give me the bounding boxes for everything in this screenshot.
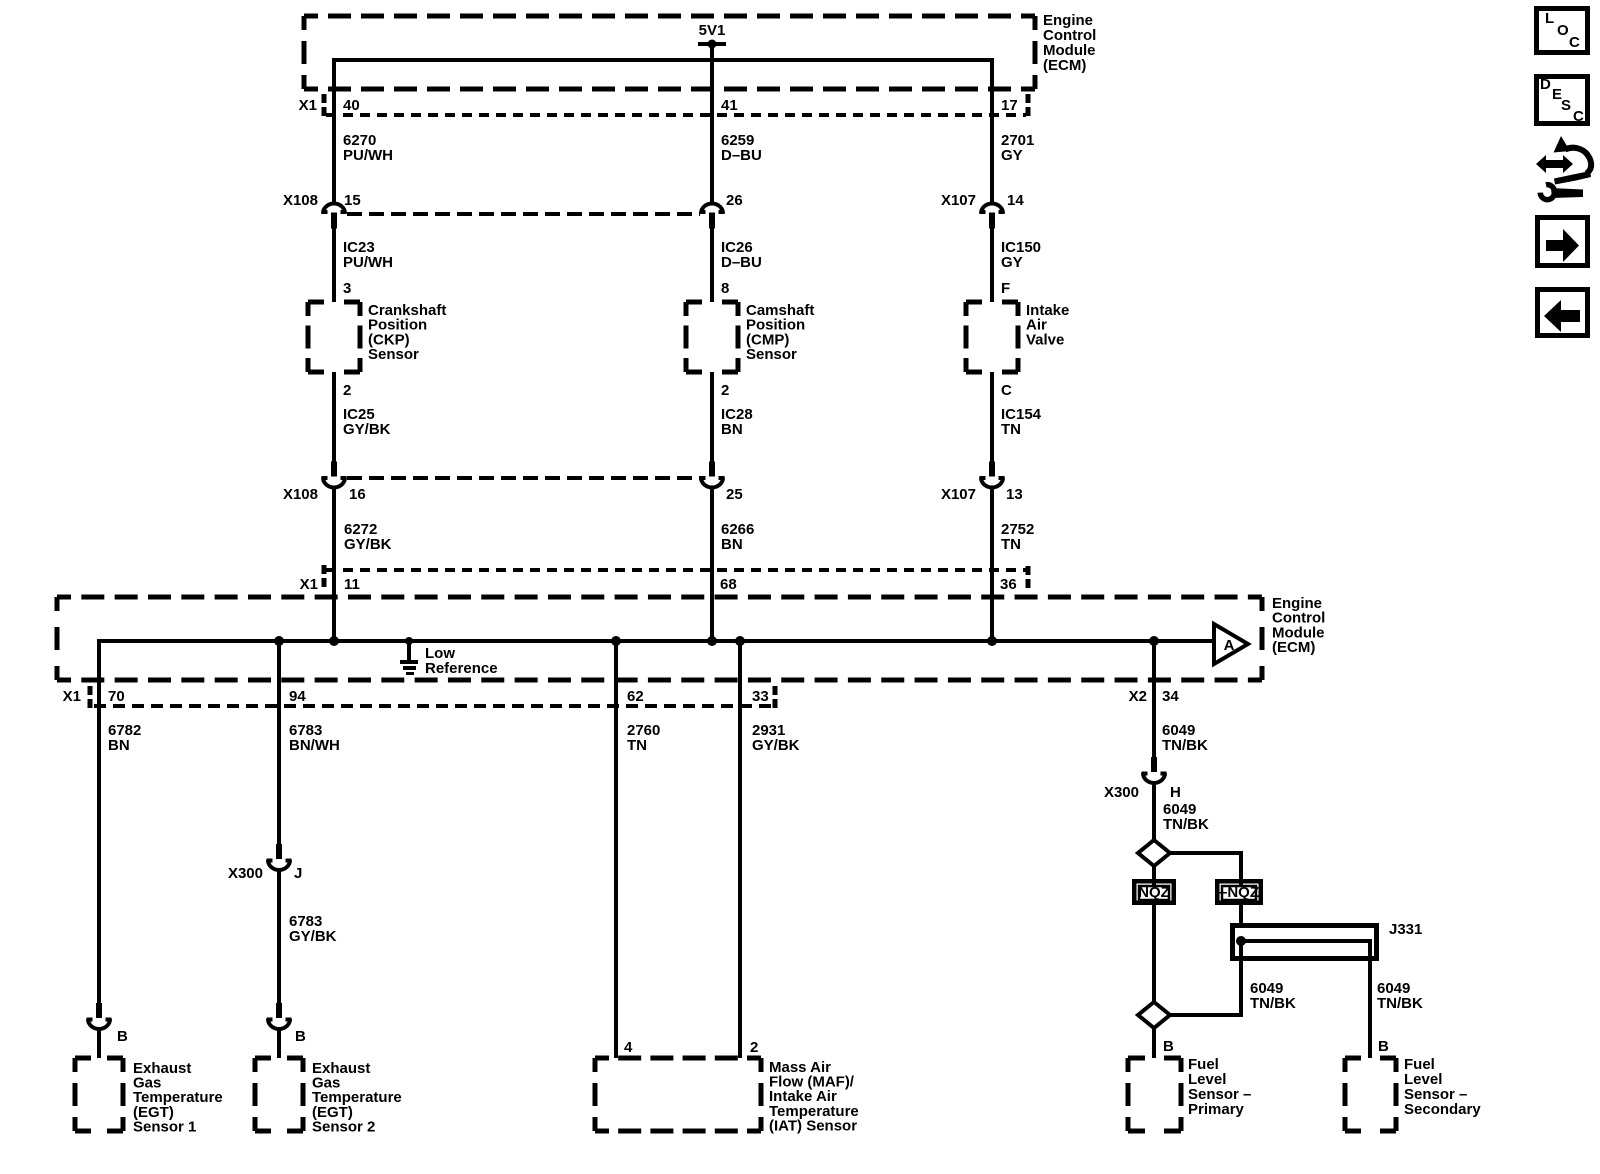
svg-text:5V1: 5V1 [699,22,726,39]
svg-text:TN: TN [1001,536,1021,553]
svg-text:B: B [1163,1038,1174,1055]
svg-text:–NQZ: –NQZ [1219,884,1259,901]
svg-text:B: B [117,1028,128,1045]
svg-text:(IAT) Sensor: (IAT) Sensor [769,1117,857,1134]
svg-text:X107: X107 [941,486,976,503]
svg-text:BN: BN [721,536,743,553]
svg-text:Sensor 1: Sensor 1 [133,1118,196,1135]
svg-text:D: D [1540,76,1551,93]
svg-text:X1: X1 [300,576,318,593]
svg-text:14: 14 [1007,192,1024,209]
svg-text:36: 36 [1000,576,1017,593]
svg-text:X107: X107 [941,192,976,209]
svg-text:11: 11 [344,576,360,593]
svg-text:PU/WH: PU/WH [343,147,393,164]
svg-text:S: S [1561,97,1571,114]
svg-text:16: 16 [349,486,366,503]
svg-text:40: 40 [343,97,360,114]
svg-text:TN/BK: TN/BK [1250,995,1296,1012]
svg-text:TN/BK: TN/BK [1162,737,1208,754]
svg-text:A: A [1224,637,1235,654]
svg-text:X300: X300 [228,865,263,882]
svg-text:F: F [1001,280,1010,297]
svg-text:33: 33 [752,688,769,705]
svg-text:Valve: Valve [1026,331,1064,348]
svg-text:13: 13 [1006,486,1023,503]
svg-text:X300: X300 [1104,784,1139,801]
svg-text:GY/BK: GY/BK [344,536,392,553]
svg-text:GY: GY [1001,147,1023,164]
svg-text:2: 2 [343,382,351,399]
svg-text:GY: GY [1001,254,1023,271]
svg-text:B: B [295,1028,306,1045]
svg-text:X108: X108 [283,486,318,503]
svg-text:PU/WH: PU/WH [343,254,393,271]
svg-text:Primary: Primary [1188,1101,1245,1118]
svg-text:2: 2 [750,1039,758,1056]
svg-text:X2: X2 [1129,688,1147,705]
svg-text:J331: J331 [1389,921,1422,938]
svg-text:(ECM): (ECM) [1043,57,1086,74]
svg-text:GY/BK: GY/BK [752,737,800,754]
svg-text:L: L [1545,10,1554,27]
svg-text:Sensor 2: Sensor 2 [312,1118,375,1135]
svg-text:15: 15 [344,192,361,209]
svg-text:D–BU: D–BU [721,254,762,271]
svg-text:BN: BN [108,737,130,754]
svg-text:C: C [1573,108,1584,125]
svg-text:TN: TN [627,737,647,754]
svg-text:NQZ: NQZ [1138,884,1170,901]
svg-text:Secondary: Secondary [1404,1101,1481,1118]
svg-text:Sensor: Sensor [746,346,797,363]
svg-text:62: 62 [627,688,644,705]
svg-text:Sensor: Sensor [368,346,419,363]
svg-text:68: 68 [720,576,737,593]
svg-text:C: C [1569,34,1580,51]
svg-text:41: 41 [721,97,738,114]
svg-text:(ECM): (ECM) [1272,639,1315,656]
svg-text:X1: X1 [63,688,81,705]
svg-text:3: 3 [343,280,351,297]
svg-text:GY/BK: GY/BK [289,928,337,945]
svg-text:X1: X1 [299,97,317,114]
svg-text:J: J [294,865,302,882]
svg-text:X108: X108 [283,192,318,209]
svg-text:B: B [1378,1038,1389,1055]
svg-text:25: 25 [726,486,743,503]
svg-text:34: 34 [1162,688,1179,705]
svg-text:70: 70 [108,688,125,705]
svg-text:TN/BK: TN/BK [1163,816,1209,833]
svg-text:BN/WH: BN/WH [289,737,340,754]
svg-text:4: 4 [624,1039,633,1056]
svg-text:94: 94 [289,688,306,705]
svg-text:GY/BK: GY/BK [343,421,391,438]
svg-text:17: 17 [1001,97,1018,114]
svg-text:O: O [1557,22,1569,39]
svg-text:C: C [1001,382,1012,399]
svg-text:8: 8 [721,280,729,297]
svg-text:TN: TN [1001,421,1021,438]
svg-text:Reference: Reference [425,660,498,677]
svg-text:2: 2 [721,382,729,399]
svg-text:D–BU: D–BU [721,147,762,164]
svg-text:26: 26 [726,192,743,209]
svg-text:TN/BK: TN/BK [1377,995,1423,1012]
svg-text:BN: BN [721,421,743,438]
svg-text:H: H [1170,784,1181,801]
